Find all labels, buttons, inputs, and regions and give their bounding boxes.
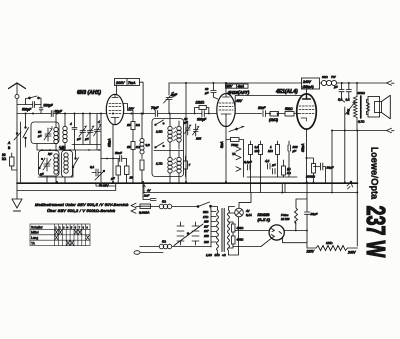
coil osc feedback bbox=[140, 114, 150, 159]
resistor 0,2M bbox=[259, 141, 263, 177]
table crosses Lang bbox=[55, 235, 90, 240]
svg-text:+Ω: +Ω bbox=[222, 253, 226, 257]
wire tone to chassis bbox=[344, 131, 346, 183]
tube U1 anode lead bbox=[116, 86, 118, 96]
tube U2 anode lead bbox=[225, 83, 227, 94]
svg-text:117: 117 bbox=[204, 224, 209, 228]
output transformer primary bbox=[354, 83, 366, 131]
wire osc mid tap bbox=[154, 150, 183, 152]
wire B+ vertical right bbox=[356, 131, 358, 247]
svg-text:1,5Ω: 1,5Ω bbox=[156, 130, 163, 134]
svg-text:82Ω: 82Ω bbox=[203, 210, 209, 214]
capacitor 4pF bbox=[70, 114, 77, 145]
power transformer primary bbox=[217, 210, 219, 251]
tube U2 cathode lead bbox=[225, 114, 227, 182]
tube U1 6N3 envelope bbox=[106, 94, 123, 124]
svg-text:185: 185 bbox=[196, 137, 201, 141]
svg-text:30Ω: 30Ω bbox=[322, 75, 328, 79]
svg-text:5mA: 5mA bbox=[220, 141, 224, 148]
wire trimmer row bottom bbox=[72, 114, 101, 183]
svg-text:400Ω: 400Ω bbox=[237, 238, 245, 242]
terminal arrow output lower bbox=[387, 128, 395, 133]
coil L4 bbox=[60, 147, 68, 174]
capacitor 500pF shunt bbox=[39, 104, 53, 114]
oscillator coil box bbox=[152, 119, 184, 177]
output transformer secondary bbox=[358, 100, 370, 124]
terminal arrows mains bbox=[131, 203, 140, 213]
wire antenna down bbox=[16, 99, 18, 182]
tube U3 4E1 envelope bbox=[297, 94, 317, 129]
switch S2d bbox=[95, 170, 105, 180]
table crosses TA bbox=[66, 240, 74, 245]
tube U1 top cap bbox=[112, 95, 118, 98]
switch S1 antenna bbox=[26, 96, 42, 107]
svg-text:15: 15 bbox=[127, 145, 131, 149]
svg-text:12MΩ: 12MΩ bbox=[196, 101, 205, 105]
svg-text:0,9: 0,9 bbox=[146, 143, 151, 147]
wire can row 2 bottom bbox=[39, 176, 73, 182]
tube U2 top cap bbox=[223, 94, 230, 98]
resistor 1M af bbox=[268, 114, 280, 178]
tube U3 cathode lead bbox=[306, 129, 308, 158]
svg-text:220: 220 bbox=[203, 240, 209, 244]
trimmer capacitor in can 1 bbox=[37, 127, 52, 142]
tube U2 grids bbox=[219, 103, 233, 114]
capacitor 4,5uF bbox=[265, 159, 276, 169]
wire heater bus bottom bbox=[144, 192, 358, 194]
winding resistance 400ohm b bbox=[229, 236, 245, 248]
capacitor 70pF series in bus bbox=[151, 106, 159, 117]
loudspeaker bbox=[368, 95, 390, 118]
svg-text:240V: 240V bbox=[347, 251, 356, 255]
resistor 70k cathode bbox=[226, 138, 244, 178]
svg-text:1,2Ω: 1,2Ω bbox=[206, 253, 212, 257]
svg-text:10nF: 10nF bbox=[258, 106, 266, 110]
capacitor 100pF bbox=[288, 141, 298, 177]
wire anode feed to bus bbox=[140, 82, 144, 113]
resistor 15k screen bbox=[127, 107, 141, 142]
svg-text:8µF: 8µF bbox=[171, 93, 178, 97]
svg-text:75 15V: 75 15V bbox=[99, 183, 109, 187]
wire chassis bus bottom bbox=[17, 182, 358, 184]
power transformer top leads bbox=[211, 206, 235, 255]
wire output lower terminal bbox=[332, 130, 387, 132]
svg-text:35mA: 35mA bbox=[301, 144, 305, 152]
svg-text:Über SEV 500,2 / V 500kΩ-Bere: Über SEV 500,2 / V 500kΩ-Bereich bbox=[47, 209, 115, 213]
osc transformer core hatch 2 bbox=[174, 158, 177, 172]
svg-text:pF: pF bbox=[37, 134, 42, 138]
antenna bbox=[9, 83, 26, 94]
trimmer capacitor T2 bbox=[77, 114, 87, 145]
coil L5 osc bbox=[156, 114, 172, 151]
svg-text:600Ω: 600Ω bbox=[358, 91, 366, 95]
svg-text:NF: NF bbox=[48, 152, 52, 156]
capacitor 50nF bbox=[101, 151, 127, 162]
tube U3 grids bbox=[299, 106, 314, 121]
svg-text:TA: TA bbox=[232, 152, 236, 156]
ground bbox=[12, 182, 22, 211]
svg-text:7mA: 7mA bbox=[128, 81, 136, 85]
wire tube1 screen tap bbox=[124, 104, 135, 111]
svg-text:(35mA): (35mA) bbox=[303, 85, 314, 89]
winding resistance 400ohm a bbox=[229, 222, 245, 236]
svg-text:17Ω: 17Ω bbox=[215, 253, 220, 257]
svg-text:1,7Ω: 1,7Ω bbox=[156, 162, 163, 166]
wire left frame bbox=[20, 122, 22, 182]
capacitor 500pF series bbox=[17, 102, 41, 112]
svg-text:25: 25 bbox=[129, 176, 134, 180]
resistor 25k af bbox=[125, 159, 134, 184]
rf choke mains upper bbox=[151, 200, 198, 209]
svg-text:48V: 48V bbox=[236, 99, 243, 103]
svg-text:4mA: 4mA bbox=[238, 85, 245, 89]
wire cathode bias bbox=[306, 158, 308, 183]
terminal arrow chassis right bbox=[347, 181, 353, 189]
node output junctions bbox=[313, 130, 359, 194]
svg-text:237 W: 237 W bbox=[361, 206, 390, 258]
capacitor 16uF reservoir bbox=[305, 183, 318, 249]
switch S2a band bbox=[23, 114, 29, 148]
fuse 0,63/2A bbox=[139, 204, 151, 215]
switch S2c bbox=[72, 150, 78, 177]
coil L6 osc bbox=[177, 121, 181, 149]
capacitor 30pF bbox=[204, 83, 218, 99]
svg-text:µF: µF bbox=[334, 85, 338, 89]
output transformer core bbox=[360, 96, 362, 118]
wire rectifier cathode bbox=[233, 237, 307, 247]
svg-text:MΩ: MΩ bbox=[255, 149, 260, 153]
tube U3 grid lead bbox=[298, 113, 300, 115]
wire fuse top bbox=[296, 199, 307, 202]
rectifier U4 AZ1 envelope bbox=[269, 225, 284, 240]
filter can box 3 bbox=[62, 151, 73, 178]
svg-text:12 NS: 12 NS bbox=[281, 217, 289, 221]
trimmer capacitor osc 30 bbox=[184, 117, 191, 135]
svg-text:16µF: 16µF bbox=[311, 212, 318, 216]
svg-text:0,1µF: 0,1µF bbox=[244, 160, 252, 164]
capacitor 2nF mains bbox=[143, 182, 156, 201]
resistor osc tap bbox=[184, 156, 191, 177]
svg-text:65mA: 65mA bbox=[108, 139, 112, 147]
svg-text:pF: pF bbox=[204, 91, 209, 95]
svg-text:µF: µF bbox=[184, 121, 188, 125]
svg-text:4,5: 4,5 bbox=[265, 159, 270, 163]
trimmer capacitor T3 bbox=[85, 114, 94, 145]
tuning gang capacitor 8uF bbox=[164, 83, 178, 114]
wire af bottom bbox=[247, 176, 297, 178]
wire AF coupling bbox=[235, 113, 261, 115]
filter can box 1 bbox=[31, 122, 59, 144]
tube U1 cathode lead bbox=[113, 118, 115, 183]
trimmer capacitor osc 185 bbox=[193, 124, 202, 141]
svg-text:17Ω: 17Ω bbox=[203, 215, 209, 219]
wire grid bus left bbox=[17, 113, 217, 115]
svg-text:HKΩ: HKΩ bbox=[326, 241, 333, 245]
wire bus to rectifier bbox=[281, 184, 283, 193]
svg-text:240V: 240V bbox=[302, 80, 312, 84]
capacitor 0,1 tone bbox=[346, 83, 352, 102]
svg-text:70pF: 70pF bbox=[151, 106, 159, 110]
tube U3 anode lead bbox=[306, 89, 308, 96]
svg-text:15: 15 bbox=[127, 123, 131, 127]
capacitor small af2 bbox=[273, 169, 276, 175]
voltage selector taps bbox=[203, 210, 216, 247]
svg-text:2000Ω: 2000Ω bbox=[305, 175, 316, 179]
resistor 12M grid leak bbox=[194, 101, 210, 115]
node bus junctions bbox=[32, 82, 358, 194]
svg-text:90V: 90V bbox=[227, 85, 234, 89]
rf choke mains lower bbox=[140, 240, 211, 249]
svg-text:70kΩ: 70kΩ bbox=[231, 143, 239, 147]
trimmer capacitor T4 bbox=[94, 114, 102, 145]
capacitor 60pF series in bus bbox=[51, 110, 63, 117]
svg-text:Schalter: Schalter bbox=[31, 225, 44, 229]
mains dropper 220V-240V bbox=[306, 241, 358, 255]
coil L8 osc lang bbox=[170, 151, 181, 183]
switch S3b osc bbox=[155, 143, 165, 149]
wire screen line bbox=[235, 96, 306, 111]
resistor 1M agc bbox=[111, 159, 121, 184]
svg-text:0,1: 0,1 bbox=[346, 98, 351, 102]
wire right return bbox=[251, 177, 286, 193]
svg-text:µF: µF bbox=[40, 172, 44, 176]
fuse Feinsicherung 12NS bbox=[281, 202, 298, 224]
node heater junctions bbox=[25, 113, 308, 184]
svg-text:Meßinstrument Unter SEV 500,5: Meßinstrument Unter SEV 500,5 /V 50V-Ber… bbox=[35, 203, 129, 207]
svg-text:110: 110 bbox=[204, 220, 209, 224]
svg-text:150: 150 bbox=[204, 234, 209, 238]
svg-text:50nF: 50nF bbox=[115, 151, 122, 155]
svg-text:0,7Ω: 0,7Ω bbox=[358, 120, 365, 124]
wire rectifier to fuse bbox=[284, 222, 307, 231]
coil L3 bbox=[48, 152, 58, 174]
antenna jack bbox=[15, 95, 19, 99]
svg-text:0,1: 0,1 bbox=[90, 165, 95, 169]
svg-text:6N3 (AH1): 6N3 (AH1) bbox=[77, 90, 101, 96]
switch AB on antenna line bbox=[7, 132, 21, 150]
svg-text:220V: 220V bbox=[306, 250, 315, 254]
terminal arrows TA bbox=[232, 147, 241, 172]
svg-text:Reg: Reg bbox=[347, 109, 351, 115]
svg-text:µF: µF bbox=[111, 177, 115, 181]
tube U2 4H16 envelope bbox=[217, 94, 235, 127]
terminal arrow HT top right bbox=[387, 81, 395, 86]
resistor 2M bbox=[269, 112, 285, 123]
smoothing choke 30ohm bbox=[320, 75, 339, 86]
resistor Lk bbox=[282, 160, 292, 177]
svg-text:4H16(AF7): 4H16(AF7) bbox=[227, 90, 250, 95]
osc transformer core hatch bbox=[174, 127, 177, 141]
svg-text:Lang: Lang bbox=[31, 236, 38, 240]
wire filter common bbox=[37, 144, 101, 151]
filter can box 2 bbox=[39, 151, 60, 177]
switch mains bbox=[197, 202, 211, 210]
power transformer core bbox=[222, 209, 224, 252]
svg-text:400Ω: 400Ω bbox=[237, 226, 245, 230]
tone potentiometer Reg bbox=[342, 97, 356, 131]
svg-text:300µF: 300µF bbox=[197, 118, 207, 122]
wire transformer hv to rectifier bbox=[235, 230, 269, 232]
switch S2b bbox=[39, 158, 45, 169]
resistor 50k grid stopper bbox=[285, 107, 298, 116]
svg-text:0,63/2A: 0,63/2A bbox=[139, 211, 149, 215]
svg-text:127: 127 bbox=[204, 229, 209, 233]
svg-text:MΩ: MΩ bbox=[268, 149, 273, 153]
wire AVC vertical bbox=[185, 83, 187, 182]
tube U1 grids bbox=[109, 104, 121, 118]
trimmer capacitor in can 2 bbox=[40, 158, 51, 176]
tube U3 top cap bbox=[303, 96, 311, 100]
table crosses Mittel bbox=[55, 229, 82, 234]
svg-text:0,1A: 0,1A bbox=[246, 213, 252, 217]
capacitor 0,1uF af bbox=[244, 160, 252, 170]
power transformer secondary bbox=[228, 210, 230, 251]
resistor 0,5M bbox=[249, 141, 260, 177]
capacitor 0,1uF cathode bbox=[90, 165, 101, 176]
bandswitch contact ladder bbox=[174, 222, 203, 246]
label box 200V 7mA bbox=[115, 79, 140, 86]
coil L2 bbox=[59, 114, 67, 184]
wire HT bus top bbox=[169, 82, 387, 84]
resistor 70k screen lower bbox=[127, 142, 141, 184]
resistor osc grid bbox=[140, 160, 144, 183]
svg-text:4E1(AL4): 4E1(AL4) bbox=[275, 89, 298, 95]
svg-text:500pF: 500pF bbox=[22, 108, 32, 112]
svg-text:µF: µF bbox=[85, 137, 89, 141]
svg-text:Mittel: Mittel bbox=[31, 231, 39, 235]
switch S3a osc bbox=[155, 120, 165, 126]
resistor 10k in antenna leg bbox=[2, 153, 17, 170]
capacitor 16uF cathode bbox=[314, 163, 334, 183]
mains plug bbox=[134, 247, 163, 255]
label box 90V 4mA bbox=[226, 84, 249, 89]
coil L7 osc lang bbox=[156, 151, 172, 173]
svg-text:(A.Z 1): (A.Z 1) bbox=[258, 217, 271, 222]
wire pilot lamp return bbox=[229, 217, 239, 255]
svg-text:µF: µF bbox=[272, 163, 276, 167]
coil L1 bbox=[54, 114, 58, 184]
label NDMB (AZ1) bbox=[258, 212, 271, 222]
measurement box 75/15V bbox=[17, 183, 116, 190]
svg-text:Loewe/Opta: Loewe/Opta bbox=[370, 147, 380, 200]
capacitor 5nF anode bbox=[334, 83, 344, 102]
svg-text:16µF: 16µF bbox=[327, 166, 334, 170]
svg-text:kΩ: kΩ bbox=[2, 157, 7, 161]
label box 240V 35mA bbox=[302, 78, 320, 89]
svg-text:50kΩ: 50kΩ bbox=[285, 107, 293, 111]
switch position table bbox=[30, 224, 90, 246]
svg-text:1kΩ: 1kΩ bbox=[60, 147, 66, 151]
svg-text:200V: 200V bbox=[115, 81, 125, 85]
wire speaker return vertical bbox=[331, 131, 333, 193]
capacitor 10nF coupling bbox=[258, 106, 270, 117]
svg-text:µF: µF bbox=[77, 137, 81, 141]
rectifier U4 anodes bbox=[272, 229, 282, 238]
svg-text:µF: µF bbox=[293, 149, 297, 153]
svg-text:2nF: 2nF bbox=[143, 194, 149, 198]
svg-text:60pF: 60pF bbox=[55, 110, 63, 114]
resistor 2000ohm cathode bbox=[305, 158, 316, 183]
volume potentiometer arrow bbox=[229, 126, 244, 131]
svg-text:500pF: 500pF bbox=[44, 104, 54, 108]
svg-text:(2MΩ): (2MΩ) bbox=[269, 118, 278, 122]
pilot lamp bbox=[229, 193, 252, 217]
capacitor 300pF grid bbox=[197, 111, 207, 122]
